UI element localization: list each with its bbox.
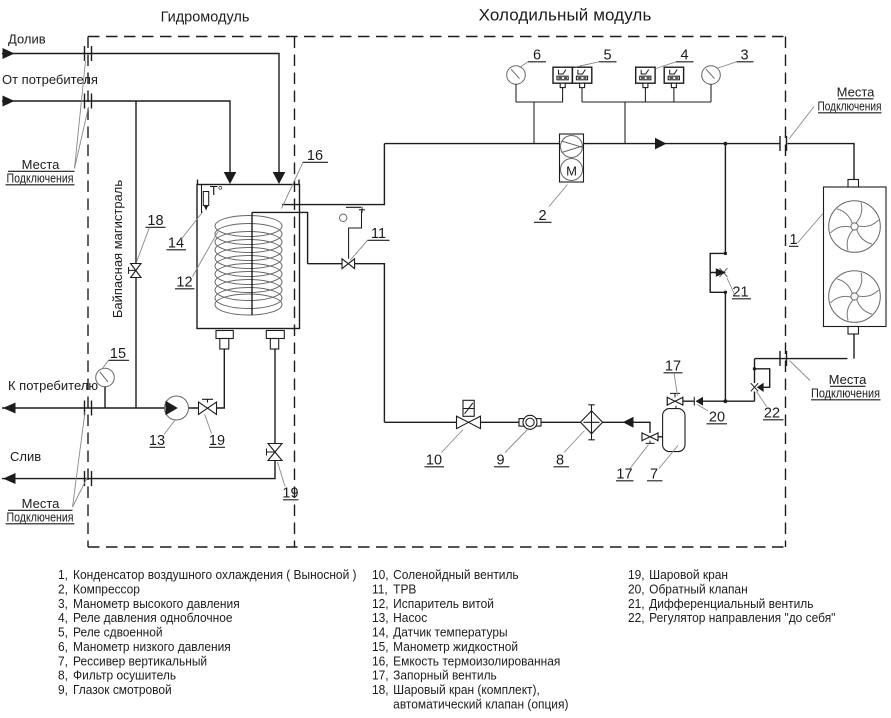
svg-text:1,: 1, xyxy=(58,568,68,582)
svg-text:Подключения: Подключения xyxy=(7,171,74,186)
svg-text:Места: Места xyxy=(837,85,876,100)
svg-text:13: 13 xyxy=(149,433,165,449)
svg-text:Подключения: Подключения xyxy=(811,386,880,401)
svg-text:7: 7 xyxy=(650,467,658,483)
svg-text:автоматический клапан (опция): автоматический клапан (опция) xyxy=(393,697,568,711)
svg-text:20: 20 xyxy=(709,410,725,426)
svg-text:5,: 5, xyxy=(58,625,68,639)
svg-text:4,: 4, xyxy=(58,611,68,625)
svg-text:12,: 12, xyxy=(372,597,389,611)
svg-text:14: 14 xyxy=(168,236,184,252)
svg-text:12: 12 xyxy=(176,275,192,291)
svg-text:Слив: Слив xyxy=(10,449,41,464)
svg-text:17,: 17, xyxy=(372,668,389,682)
svg-text:19: 19 xyxy=(209,433,225,449)
svg-text:Дифференциальный вентиль: Дифференциальный вентиль xyxy=(649,597,813,611)
svg-text:Испаритель витой: Испаритель витой xyxy=(393,597,494,611)
svg-text:11,: 11, xyxy=(372,582,388,596)
svg-text:10: 10 xyxy=(426,453,442,469)
svg-text:21: 21 xyxy=(732,285,748,301)
svg-text:4: 4 xyxy=(680,48,688,64)
svg-text:21,: 21, xyxy=(628,597,645,611)
svg-text:Т°: Т° xyxy=(210,183,223,198)
svg-text:Регулятор направления "до себя: Регулятор направления "до себя" xyxy=(649,611,835,625)
svg-text:17: 17 xyxy=(665,359,681,375)
svg-text:16,: 16, xyxy=(372,654,389,668)
svg-text:8,: 8, xyxy=(58,668,68,682)
svg-text:5: 5 xyxy=(603,48,611,64)
svg-text:17: 17 xyxy=(616,467,632,483)
svg-text:Насос: Насос xyxy=(393,611,427,625)
svg-text:6: 6 xyxy=(533,48,541,64)
svg-text:19,: 19, xyxy=(628,568,645,582)
svg-text:Шаровый кран (комплект),: Шаровый кран (комплект), xyxy=(393,683,540,697)
svg-text:6,: 6, xyxy=(58,640,68,654)
svg-text:3: 3 xyxy=(740,48,748,64)
svg-text:18,: 18, xyxy=(372,683,389,697)
svg-text:22: 22 xyxy=(764,406,780,422)
svg-text:Фильтр осушитель: Фильтр осушитель xyxy=(73,668,176,682)
svg-text:2,: 2, xyxy=(58,582,68,596)
svg-text:15,: 15, xyxy=(372,640,389,654)
svg-text:Манометр низкого давления: Манометр низкого давления xyxy=(73,640,231,654)
svg-text:Глазок смотровой: Глазок смотровой xyxy=(73,683,172,697)
svg-text:13,: 13, xyxy=(372,611,389,625)
svg-text:Датчик температуры: Датчик температуры xyxy=(393,625,507,639)
svg-text:К потребителю: К потребителю xyxy=(8,378,98,393)
svg-text:16: 16 xyxy=(307,148,323,164)
svg-text:Подключения: Подключения xyxy=(7,510,74,525)
svg-text:Рессивер вертикальный: Рессивер вертикальный xyxy=(73,654,207,668)
svg-text:Запорный вентиль: Запорный вентиль xyxy=(393,668,497,682)
svg-text:18: 18 xyxy=(147,213,163,229)
svg-text:Манометр жидкостной: Манометр жидкостной xyxy=(393,640,518,654)
svg-text:10,: 10, xyxy=(372,568,389,582)
svg-text:Долив: Долив xyxy=(8,32,46,47)
svg-text:20,: 20, xyxy=(628,582,645,596)
svg-text:Обратный клапан: Обратный клапан xyxy=(649,582,748,596)
svg-text:14,: 14, xyxy=(372,625,389,639)
svg-text:ТРВ: ТРВ xyxy=(393,582,416,596)
svg-text:Соленойдный вентиль: Соленойдный вентиль xyxy=(393,568,518,582)
svg-text:Подключения: Подключения xyxy=(818,99,882,114)
svg-text:Манометр высокого давления: Манометр высокого давления xyxy=(73,597,240,611)
svg-text:11: 11 xyxy=(371,226,386,242)
svg-text:9,: 9, xyxy=(58,683,68,697)
svg-text:3,: 3, xyxy=(58,597,68,611)
svg-text:Конденсатор воздушного охлажде: Конденсатор воздушного охлаждения ( Выно… xyxy=(73,568,357,582)
svg-text:19: 19 xyxy=(282,486,298,502)
svg-text:Шаровой кран: Шаровой кран xyxy=(649,568,728,582)
svg-text:7,: 7, xyxy=(58,654,68,668)
svg-text:Байпасная магистраль: Байпасная магистраль xyxy=(110,180,125,319)
svg-text:Реле сдвоенной: Реле сдвоенной xyxy=(73,625,163,639)
svg-text:9: 9 xyxy=(496,453,504,469)
svg-text:15: 15 xyxy=(110,346,126,362)
svg-text:Реле давления одноблочное: Реле давления одноблочное xyxy=(73,611,233,625)
svg-text:Холодильный модуль: Холодильный модуль xyxy=(479,6,652,25)
svg-text:1: 1 xyxy=(789,232,797,248)
svg-text:Гидромодуль: Гидромодуль xyxy=(161,10,250,26)
svg-text:8: 8 xyxy=(556,453,564,469)
svg-text:Емкость термоизолированная: Емкость термоизолированная xyxy=(393,654,560,668)
svg-text:2: 2 xyxy=(538,208,546,224)
svg-text:М: М xyxy=(566,164,577,179)
svg-text:Компрессор: Компрессор xyxy=(73,582,140,596)
svg-text:22,: 22, xyxy=(628,611,645,625)
